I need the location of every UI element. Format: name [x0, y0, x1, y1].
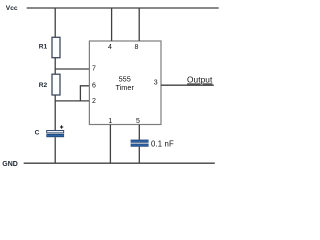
wire R2 to capacitor C — [54, 95, 56, 131]
svg-text:R1: R1 — [39, 43, 48, 50]
wire Vcc rail to pin 8 — [138, 8, 140, 41]
svg-text:5: 5 — [136, 118, 140, 125]
polarity plus sign of C1 — [60, 125, 63, 128]
svg-text:6: 6 — [92, 83, 96, 90]
wire pin 5 to capacitor C2 — [138, 125, 140, 140]
wire Vcc rail to R1 — [54, 8, 56, 38]
capacitor C1 C (electrolytic) — [46, 131, 64, 138]
svg-text:1: 1 — [108, 118, 112, 125]
svg-text:C: C — [35, 130, 40, 137]
wire Vcc rail — [27, 7, 219, 9]
svg-text:2: 2 — [92, 98, 96, 105]
wire pin 3 output — [161, 84, 214, 86]
svg-text:Timer: Timer — [116, 83, 135, 92]
svg-text:R2: R2 — [39, 82, 48, 89]
svg-text:7: 7 — [92, 66, 96, 73]
svg-text:4: 4 — [108, 44, 112, 51]
svg-text:GND: GND — [2, 161, 18, 168]
svg-text:0.1 nF: 0.1 nF — [151, 140, 174, 149]
wire GND rail — [24, 162, 215, 164]
resistor R2 — [52, 74, 60, 95]
IC U1 555 timer — [89, 41, 161, 125]
wire pin 2 branch — [55, 100, 89, 102]
wire capacitor C1 to GND — [54, 137, 56, 163]
svg-text:8: 8 — [134, 44, 138, 51]
svg-text:3: 3 — [154, 80, 158, 87]
wire R1 to R2 — [54, 58, 56, 75]
resistor R1 — [52, 37, 60, 57]
wire Vcc rail to pin 4 — [111, 8, 113, 41]
wire pin 6 to pin 2 — [80, 86, 89, 101]
wire capacitor C2 to GND — [138, 147, 140, 164]
wire node A to pin 7 — [55, 68, 89, 70]
wire pin 1 to GND — [109, 125, 111, 164]
svg-text:Vcc: Vcc — [6, 5, 18, 12]
svg-text:Output: Output — [187, 75, 213, 85]
